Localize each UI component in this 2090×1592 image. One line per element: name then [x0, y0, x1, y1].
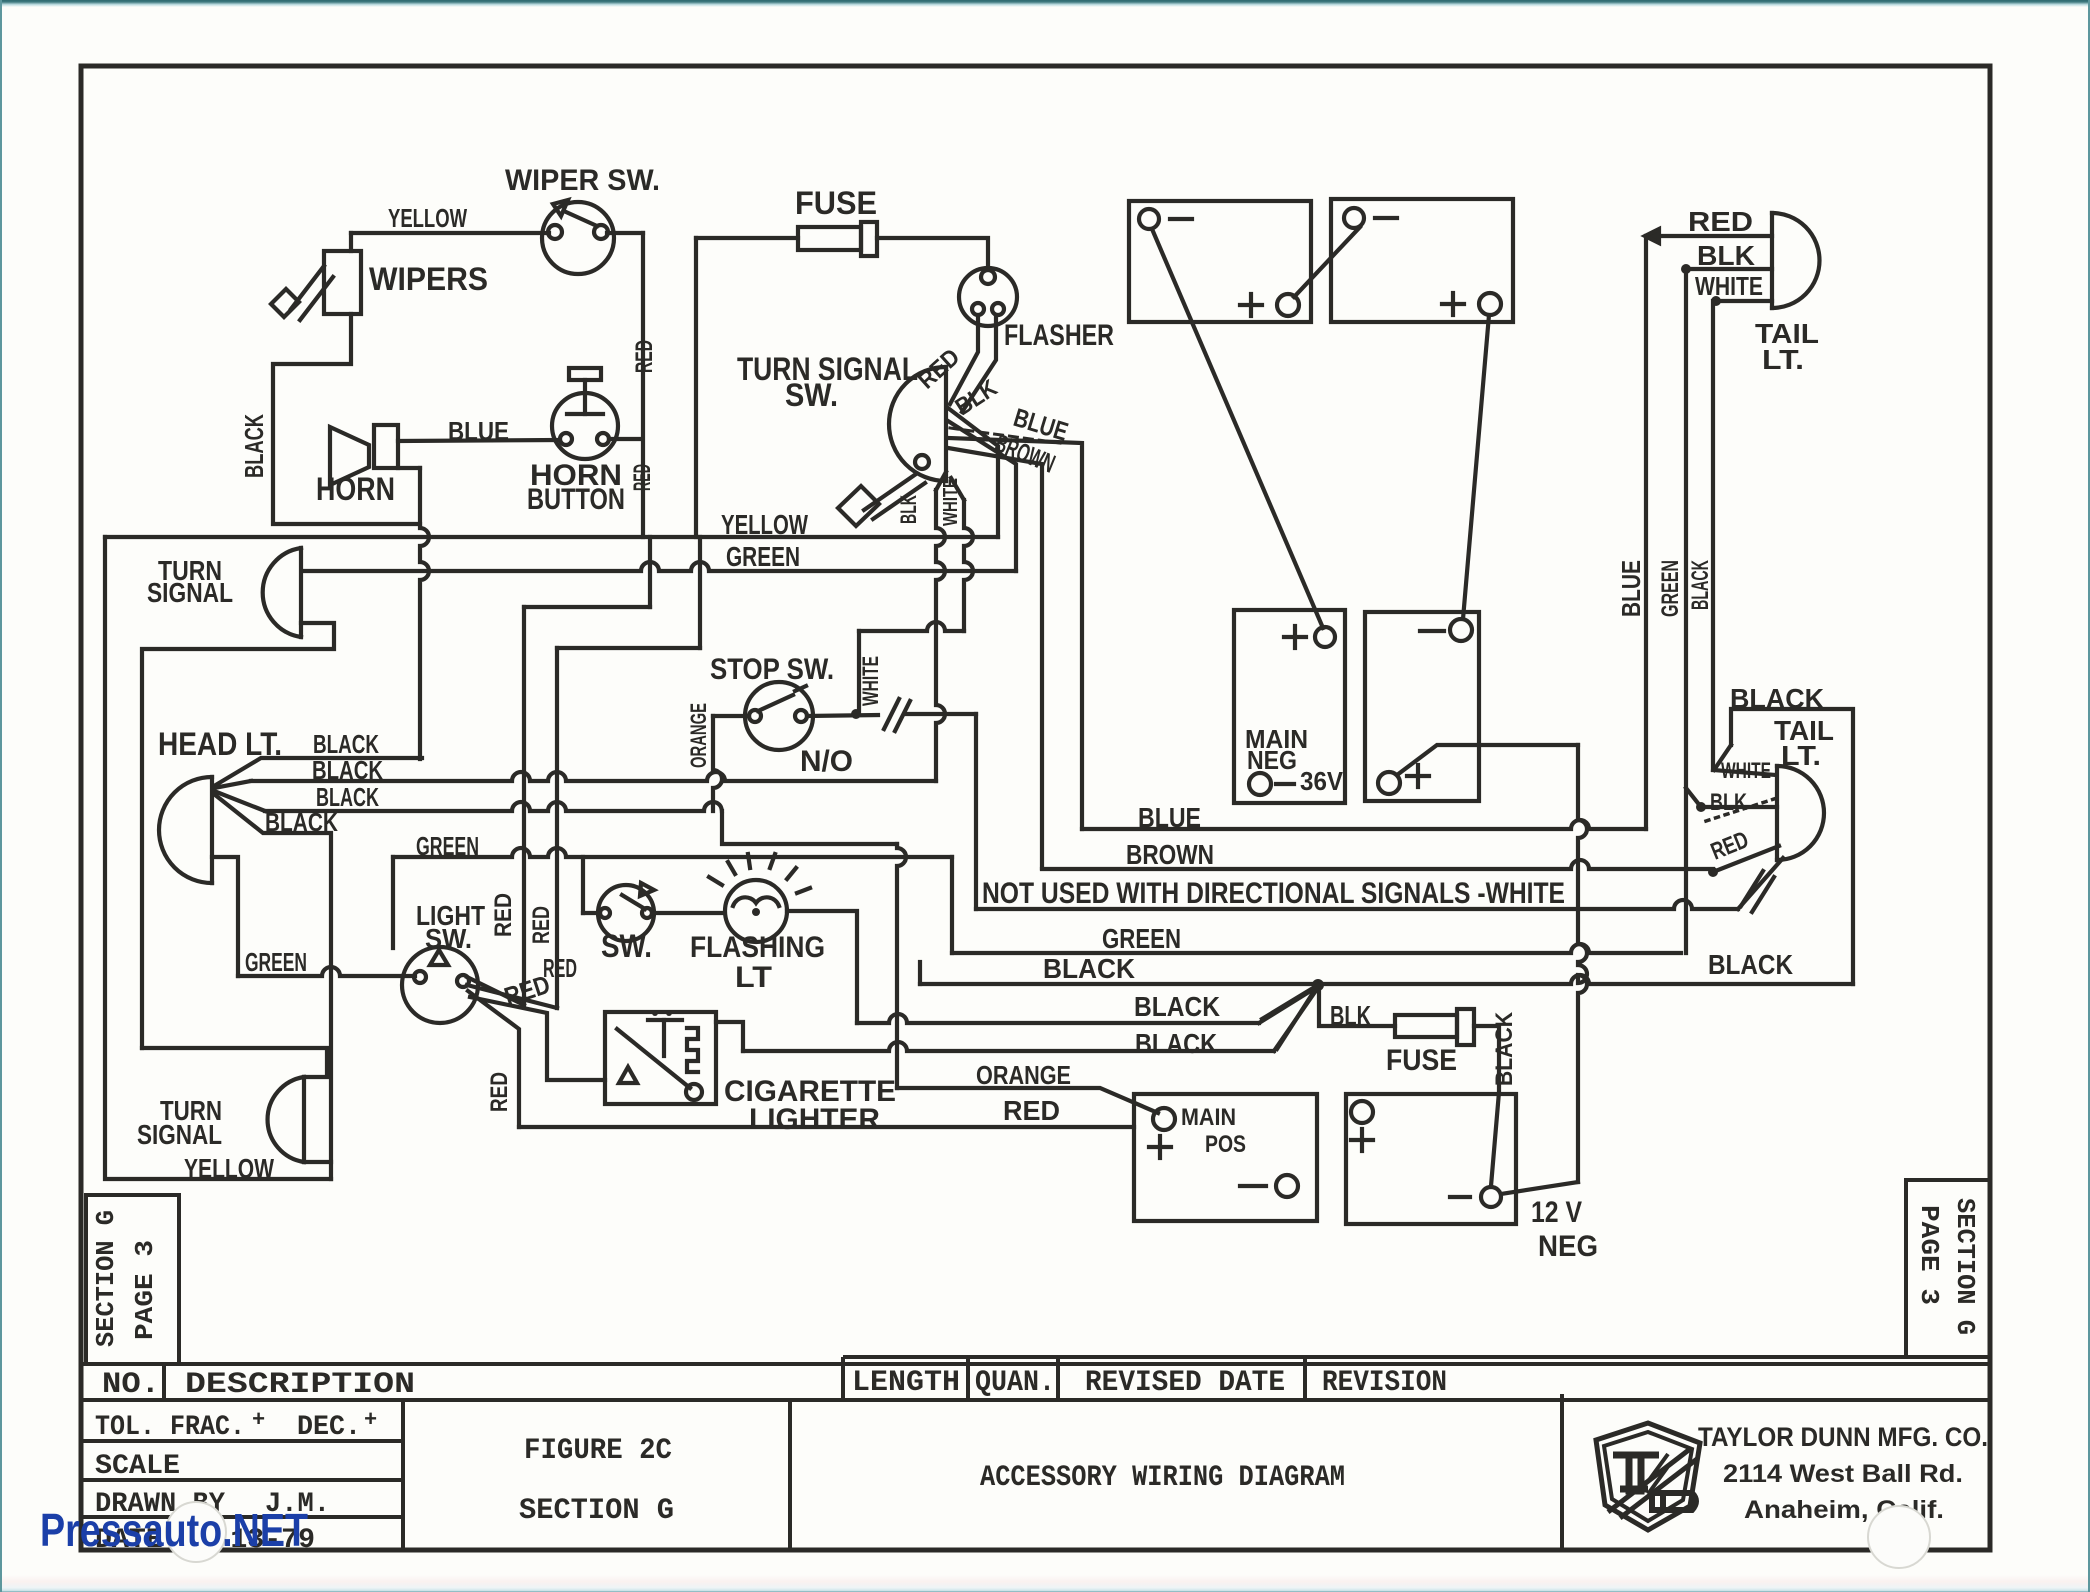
svg-text:GREEN: GREEN — [416, 831, 479, 861]
label YELLOW bus — [721, 509, 808, 540]
bus white (not used with directional signals) — [976, 858, 1783, 912]
label BLACK 1 — [313, 729, 379, 759]
svg-text:YELLOW: YELLOW — [184, 1153, 274, 1184]
wire red (flasher to turn signal sw) — [950, 316, 978, 404]
label BLUE riser — [1616, 560, 1646, 617]
turn signal sw lever — [838, 474, 925, 526]
svg-text:ORANGE: ORANGE — [686, 703, 711, 768]
svg-text:YELLOW: YELLOW — [388, 203, 467, 233]
svg-text:LIGHTER: LIGHTER — [749, 1103, 880, 1136]
label 12V NEG — [1531, 1196, 1598, 1263]
svg-text:BLACK: BLACK — [239, 414, 269, 478]
svg-text:WHITE: WHITE — [1721, 758, 1771, 783]
label BLACK (wipers wire) — [239, 414, 269, 478]
label HORN BUTTON — [527, 459, 625, 516]
svg-text:36V: 36V — [1300, 766, 1344, 796]
wire black 1 (head lt) — [214, 758, 422, 786]
bus orange — [897, 1088, 1158, 1113]
label ORANGE bus — [976, 1060, 1071, 1090]
label TURN SIGNAL (TS1) — [147, 555, 233, 608]
wire white (to TL2) — [1713, 770, 1776, 775]
text DATE — [95, 1525, 315, 1556]
label FLASHING LT — [690, 931, 825, 994]
wipers lever — [271, 266, 333, 320]
label LIGHT SW. — [416, 900, 485, 954]
svg-text:PAGE 3: PAGE 3 — [1914, 1205, 1944, 1305]
light switch LS1 — [402, 947, 478, 1023]
wire (stop sw right to white bus) — [807, 699, 976, 909]
turn signal lamp TS2 — [268, 1077, 304, 1162]
bus blue — [1082, 820, 1646, 829]
battery MAIN NEG — [1234, 610, 1345, 803]
label RED (to red bus) — [486, 1072, 513, 1112]
svg-text:BLK: BLK — [1710, 789, 1747, 816]
label BLACK 2 — [312, 755, 383, 785]
label HORN — [316, 471, 395, 507]
text NO. — [102, 1368, 160, 1402]
svg-text:MAIN: MAIN — [1181, 1104, 1236, 1131]
cigarette lighter CL1 — [605, 1010, 716, 1104]
svg-text:RED: RED — [1688, 206, 1753, 237]
tail light TL1 — [1772, 213, 1819, 308]
svg-text:BLACK: BLACK — [1730, 683, 1824, 714]
label BLK (junction) — [1330, 1000, 1371, 1031]
svg-text:FLASHER: FLASHER — [1004, 319, 1114, 352]
svg-text:BLACK: BLACK — [265, 807, 338, 837]
svg-text:RED: RED — [629, 464, 656, 491]
wire (TS1 bottom loop) — [142, 623, 334, 1048]
wire green (switch fan to green bus) — [948, 421, 1016, 571]
svg-text:NO.: NO. — [102, 1368, 160, 1402]
label N/O — [800, 745, 853, 778]
wire (green to SW.) — [583, 857, 600, 913]
svg-text:SECTION G: SECTION G — [91, 1210, 121, 1347]
wire red f3 (to red bus) — [468, 991, 519, 1127]
svg-text:2114 West Ball Rd.: 2114 West Ball Rd. — [1723, 1460, 1963, 1488]
wire black line 1 — [857, 987, 1317, 1023]
label RED (TL2) — [1707, 826, 1752, 865]
svg-text:BLACK: BLACK — [1687, 560, 1714, 610]
svg-text:NEG: NEG — [1247, 745, 1297, 775]
label MAIN NEG 36V — [1245, 724, 1344, 796]
tail light TL2 enclosure — [1714, 709, 1853, 984]
wire red f4 (to cigarette lighter) — [470, 997, 605, 1080]
svg-text:LT.: LT. — [1781, 740, 1821, 771]
label BLACK line2 — [1135, 1028, 1217, 1059]
svg-text:WHITE: WHITE — [858, 656, 883, 706]
bus yellow — [105, 535, 998, 539]
wire (fuse F1 to flasher) — [877, 238, 988, 269]
battery 12V — [1346, 1094, 1516, 1224]
svg-text:BLACK: BLACK — [312, 755, 383, 785]
wire white (stop sw to turn sig sw) — [851, 622, 964, 719]
svg-text:WIPERS: WIPERS — [369, 261, 488, 297]
wire black (fuse F2 to 12V neg) — [1474, 1026, 1499, 1186]
svg-text:RED: RED — [543, 953, 577, 983]
svg-text:RED: RED — [631, 340, 658, 373]
bus red — [519, 1125, 1134, 1129]
svg-text:RED: RED — [486, 1072, 513, 1112]
svg-text:SIGNAL: SIGNAL — [137, 1119, 222, 1150]
label RED (TL1) — [1688, 206, 1753, 237]
label RED (light sw up B) — [528, 906, 555, 944]
wire red f2 — [467, 985, 557, 1008]
wire dashed (TL2) — [1706, 799, 1774, 821]
svg-text:YELLOW: YELLOW — [721, 509, 808, 540]
svg-text:BLACK: BLACK — [1134, 991, 1220, 1022]
label TAIL LT. (TL1) — [1755, 318, 1819, 375]
battery MAIN POS — [1134, 1094, 1317, 1221]
svg-text:_: _ — [251, 1420, 266, 1445]
svg-text:BLK: BLK — [1330, 1000, 1371, 1031]
text REVISED DATE — [1085, 1366, 1285, 1400]
wire red f1 — [467, 977, 524, 1005]
wire (36V pos riser to 12V neg) — [1501, 745, 1587, 1194]
label RED bus — [1003, 1095, 1060, 1126]
label GREEN bus — [726, 541, 800, 572]
svg-text:LT: LT — [735, 961, 772, 994]
svg-text:FUSE: FUSE — [1386, 1044, 1457, 1077]
wire white (TL1) — [1711, 296, 1772, 306]
stop switch SS1 — [745, 682, 813, 750]
svg-text:FUSE: FUSE — [795, 185, 877, 221]
svg-text:SW.: SW. — [601, 928, 652, 964]
svg-text:POS: POS — [1205, 1131, 1246, 1158]
svg-text:BLACK: BLACK — [1043, 953, 1135, 984]
label TURN SIGNAL (TS2) — [137, 1095, 222, 1150]
label BLACK (fuse2 riser) — [1491, 1011, 1518, 1086]
wire green riser — [1684, 269, 1688, 953]
label RED (light sw diag) — [501, 969, 554, 1012]
wire green (head lt to light sw) — [212, 857, 415, 976]
svg-text:BUTTON: BUTTON — [527, 483, 625, 516]
wire (junction to fuse F2) — [1319, 991, 1395, 1026]
wire blue riser — [1644, 236, 1648, 829]
wire blue (horn to horn button) — [398, 440, 558, 441]
svg-text:RED: RED — [1003, 1095, 1060, 1126]
wire blk (switch to blk riser) — [936, 472, 946, 781]
battery B1 — [1129, 201, 1311, 322]
label RED (wiper-horn riser) — [631, 340, 658, 373]
bus black — [920, 962, 1853, 984]
label RED (horn btn riser) — [629, 464, 656, 491]
label SW. — [601, 928, 652, 964]
label ORANGE (stop sw) — [686, 703, 711, 768]
svg-text:GREEN: GREEN — [1657, 560, 1684, 617]
text REVISION — [1322, 1366, 1447, 1400]
right section box — [1906, 1180, 1990, 1357]
label GREEN (light sw wire) — [245, 947, 307, 977]
svg-text:12 V: 12 V — [1531, 1196, 1582, 1229]
switch SW2 — [598, 883, 654, 941]
label BLACK (TL2 top) — [1730, 683, 1824, 714]
fuse F2 — [1395, 1009, 1474, 1045]
svg-text:BROWN: BROWN — [1126, 839, 1214, 870]
wire (B2 neg to B1 pos) — [1294, 227, 1360, 297]
tail light TL2 — [1777, 766, 1824, 860]
text TAYLOR DUNN — [1698, 1422, 1988, 1524]
text ACCESSORY WIRING DIAGRAM — [980, 1461, 1345, 1495]
light switch box top / green — [393, 848, 952, 953]
label MAIN POS — [1181, 1104, 1246, 1158]
wire red riser A (light sw to yellow bus) — [524, 537, 650, 1005]
battery 36V cell — [1365, 612, 1578, 801]
wire black (TS2 top) — [142, 1048, 327, 1077]
svg-text:NEG: NEG — [1538, 1230, 1598, 1263]
label TURN SIGNAL SW. — [737, 351, 918, 413]
label TAIL LT. (TL2) — [1774, 715, 1834, 771]
svg-text:N/O: N/O — [800, 745, 853, 778]
text FIGURE 2C SECTION G — [519, 1434, 674, 1528]
label BLUE (horn wire) — [448, 416, 509, 446]
label WIPERS — [369, 261, 488, 297]
label YELLOW (TS2) — [184, 1153, 274, 1184]
bus green lower — [952, 944, 1681, 953]
wire brown (switch fan to brown bus) — [948, 448, 1042, 868]
svg-text:QUAN.: QUAN. — [975, 1366, 1055, 1400]
turn signal lamp TS1 — [263, 548, 301, 637]
label BROWN bus — [1126, 839, 1214, 870]
wire (B1 neg to main neg pos) — [1152, 229, 1323, 628]
wire black fan (junction to black line1) — [1262, 985, 1318, 1019]
text DESCRIPTION — [185, 1368, 415, 1402]
text SECTION G PAGE 3 right — [1914, 1198, 1980, 1335]
label FLASHER — [1004, 319, 1114, 352]
svg-text:SIGNAL: SIGNAL — [147, 577, 233, 608]
label CIGARETTE LIGHTER — [724, 1075, 896, 1136]
label FUSE F1 — [795, 185, 877, 221]
head light lamp HL1 — [159, 777, 212, 883]
svg-text:ACCESSORY WIRING DIAGRAM: ACCESSORY WIRING DIAGRAM — [980, 1461, 1345, 1495]
wire red (TL1) — [1645, 229, 1772, 243]
svg-text:DESCRIPTION: DESCRIPTION — [185, 1368, 415, 1402]
wire (B2 pos to 36V batt neg) — [1463, 315, 1489, 619]
wire black 4 (head lt to TS2) — [214, 794, 331, 1179]
label WHITE (TL2) — [1721, 758, 1771, 783]
wire white (switch to white link) — [951, 478, 973, 631]
svg-text:HEAD LT.: HEAD LT. — [158, 726, 282, 762]
svg-text:FLASHING: FLASHING — [690, 931, 825, 964]
wire blue (switch fan to blue bus) — [948, 438, 1082, 829]
text QUAN. — [975, 1366, 1055, 1400]
label HEAD LT. — [158, 726, 282, 762]
label FUSE F2 — [1386, 1044, 1457, 1077]
wiper switch SW1 — [542, 200, 614, 274]
svg-text:DEC.: DEC. — [297, 1412, 361, 1443]
label WIPER SW. — [505, 164, 660, 197]
svg-text:WIPER SW.: WIPER SW. — [505, 164, 660, 197]
label YELLOW top — [388, 203, 467, 233]
svg-text:RED: RED — [490, 893, 517, 937]
label BLACK riser — [1687, 560, 1714, 610]
wire orange (stop sw left) — [713, 716, 749, 811]
label WHITE (stop sw) — [858, 656, 883, 706]
label BLK (flasher wire) — [951, 374, 1003, 421]
svg-text:STOP SW.: STOP SW. — [710, 653, 834, 686]
label BLK (TL1) — [1697, 240, 1755, 271]
fuse F1 — [798, 222, 877, 256]
text LENGTH — [852, 1366, 960, 1400]
svg-text:RED: RED — [528, 906, 555, 944]
svg-text:ORANGE: ORANGE — [976, 1060, 1071, 1090]
wire red riser B (light sw to yellow bus) — [557, 537, 700, 1008]
wire dashed (switch fan) — [950, 428, 1060, 443]
svg-text:BLUE: BLUE — [1138, 802, 1201, 833]
label STOP SW. — [710, 653, 834, 686]
svg-text:TAYLOR DUNN MFG. CO.: TAYLOR DUNN MFG. CO. — [1698, 1422, 1988, 1452]
svg-text:SW.: SW. — [785, 377, 838, 413]
svg-text:PAGE 3: PAGE 3 — [130, 1240, 160, 1340]
label BLACK 4 — [265, 807, 338, 837]
wire (horn button to red riser) — [609, 437, 641, 441]
wire (flashing lt to black line 1) — [787, 911, 857, 1023]
wire (SW. to flashing lt) — [652, 911, 724, 915]
wire black fan (junction to black line2) — [1277, 985, 1318, 1049]
wire yellow (TS2 bottom) — [304, 1160, 331, 1164]
bus green — [303, 562, 1016, 571]
svg-text:BLK: BLK — [896, 495, 921, 524]
label BLACK bus right — [1708, 949, 1793, 980]
svg-text:BLACK: BLACK — [1491, 1011, 1518, 1086]
scan artifact blob left — [166, 1502, 226, 1562]
label BLACK bus left — [1043, 953, 1135, 984]
svg-text:REVISION: REVISION — [1322, 1366, 1447, 1400]
text TOL FRAC DEC — [95, 1408, 378, 1445]
text DRAWN BY JM — [95, 1489, 330, 1520]
svg-text:_: _ — [363, 1420, 378, 1445]
label GREEN riser — [1657, 560, 1684, 617]
svg-text:BLUE: BLUE — [448, 416, 509, 446]
label RED (light sw up A) — [490, 893, 517, 937]
svg-text:Pressauto.NET: Pressauto.NET — [40, 1504, 308, 1556]
wire black line 2 (cig lighter to junction) — [716, 989, 1317, 1051]
left section box — [86, 1195, 179, 1364]
label BLK (TL2) — [1710, 789, 1747, 816]
label BROWN (switch fan) — [991, 428, 1060, 479]
svg-text:LT.: LT. — [1762, 344, 1804, 375]
label BLACK line1 — [1134, 991, 1220, 1022]
taylor dunn logo — [1596, 1423, 1700, 1530]
svg-text:SW.: SW. — [425, 923, 472, 954]
svg-text:BLACK: BLACK — [1135, 1028, 1217, 1059]
battery B2 — [1331, 199, 1513, 322]
svg-text:HORN: HORN — [316, 471, 395, 507]
svg-text:WHITE: WHITE — [1695, 271, 1763, 301]
svg-text:GREEN: GREEN — [726, 541, 800, 572]
horn HN1 — [330, 425, 429, 759]
title block lines — [81, 1357, 1990, 1550]
flasher FL1 — [959, 268, 1017, 326]
junction blk — [1312, 979, 1324, 991]
wire yellow (wipers to wiper sw) — [351, 231, 643, 235]
label GREEN lower bus — [1102, 923, 1181, 954]
bus brown — [1042, 860, 1713, 869]
svg-text:LENGTH: LENGTH — [852, 1366, 960, 1400]
wire red (brown bus to TL2) — [1708, 846, 1779, 877]
wire yellow (switch fan to yellow bus) — [948, 408, 998, 537]
wire blk (flasher to turn signal sw) — [962, 316, 996, 412]
label RED (light sw fan) — [543, 953, 577, 983]
svg-text:GREEN: GREEN — [245, 947, 307, 977]
label WHITE (TL1) — [1695, 271, 1763, 301]
turn signal switch TS-SW — [889, 367, 946, 481]
bus yellow left leg — [105, 537, 331, 1179]
label BLUE (switch fan) — [1010, 402, 1071, 447]
svg-text:SECTION G: SECTION G — [1950, 1198, 1980, 1335]
svg-text:SECTION G: SECTION G — [519, 1494, 674, 1528]
wire black 3 (head lt bus) — [214, 791, 906, 1088]
flashing light FLT1 — [709, 854, 810, 942]
label NOT USED — [982, 877, 1565, 910]
label BLUE bus — [1138, 802, 1201, 833]
svg-text:BLACK: BLACK — [1708, 949, 1793, 980]
label BLACK 3 — [316, 782, 379, 812]
text SCALE — [95, 1451, 180, 1482]
svg-text:BLK: BLK — [1697, 240, 1755, 271]
scan artifact blob right — [1868, 1506, 1930, 1568]
svg-text:SCALE: SCALE — [95, 1451, 180, 1482]
svg-text:NOT USED WITH DIRECTIONAL SIGN: NOT USED WITH DIRECTIONAL SIGNALS -WHITE — [982, 877, 1565, 910]
wire black 2 (head lt bus) — [214, 772, 936, 788]
label GREEN (light sw box) — [416, 831, 479, 861]
horn button PB1 — [552, 368, 618, 459]
wire blk (to TL2) — [1686, 788, 1777, 812]
text SECTION G PAGE 3 left — [91, 1210, 160, 1347]
svg-text:BLUE: BLUE — [1616, 560, 1646, 617]
wire black (wipers down-left) — [273, 314, 420, 524]
wire (yellow bus to fuse F1) — [696, 238, 798, 537]
wire black riser — [1711, 301, 1715, 770]
wipers motor box — [324, 233, 361, 314]
label WHITE (below switch) — [940, 478, 962, 526]
svg-text:FIGURE 2C: FIGURE 2C — [524, 1434, 672, 1468]
wire blk (TL1) — [1681, 264, 1772, 274]
wire red (wiper sw to horn button and yellow bus) — [641, 233, 645, 537]
svg-text:REVISED DATE: REVISED DATE — [1085, 1366, 1285, 1400]
svg-text:TOL. FRAC.: TOL. FRAC. — [95, 1412, 245, 1443]
label RED (flasher wire) — [913, 344, 965, 395]
svg-text:GREEN: GREEN — [1102, 923, 1181, 954]
label BLK (below switch) — [896, 495, 921, 524]
svg-text:WHITE: WHITE — [940, 478, 962, 526]
